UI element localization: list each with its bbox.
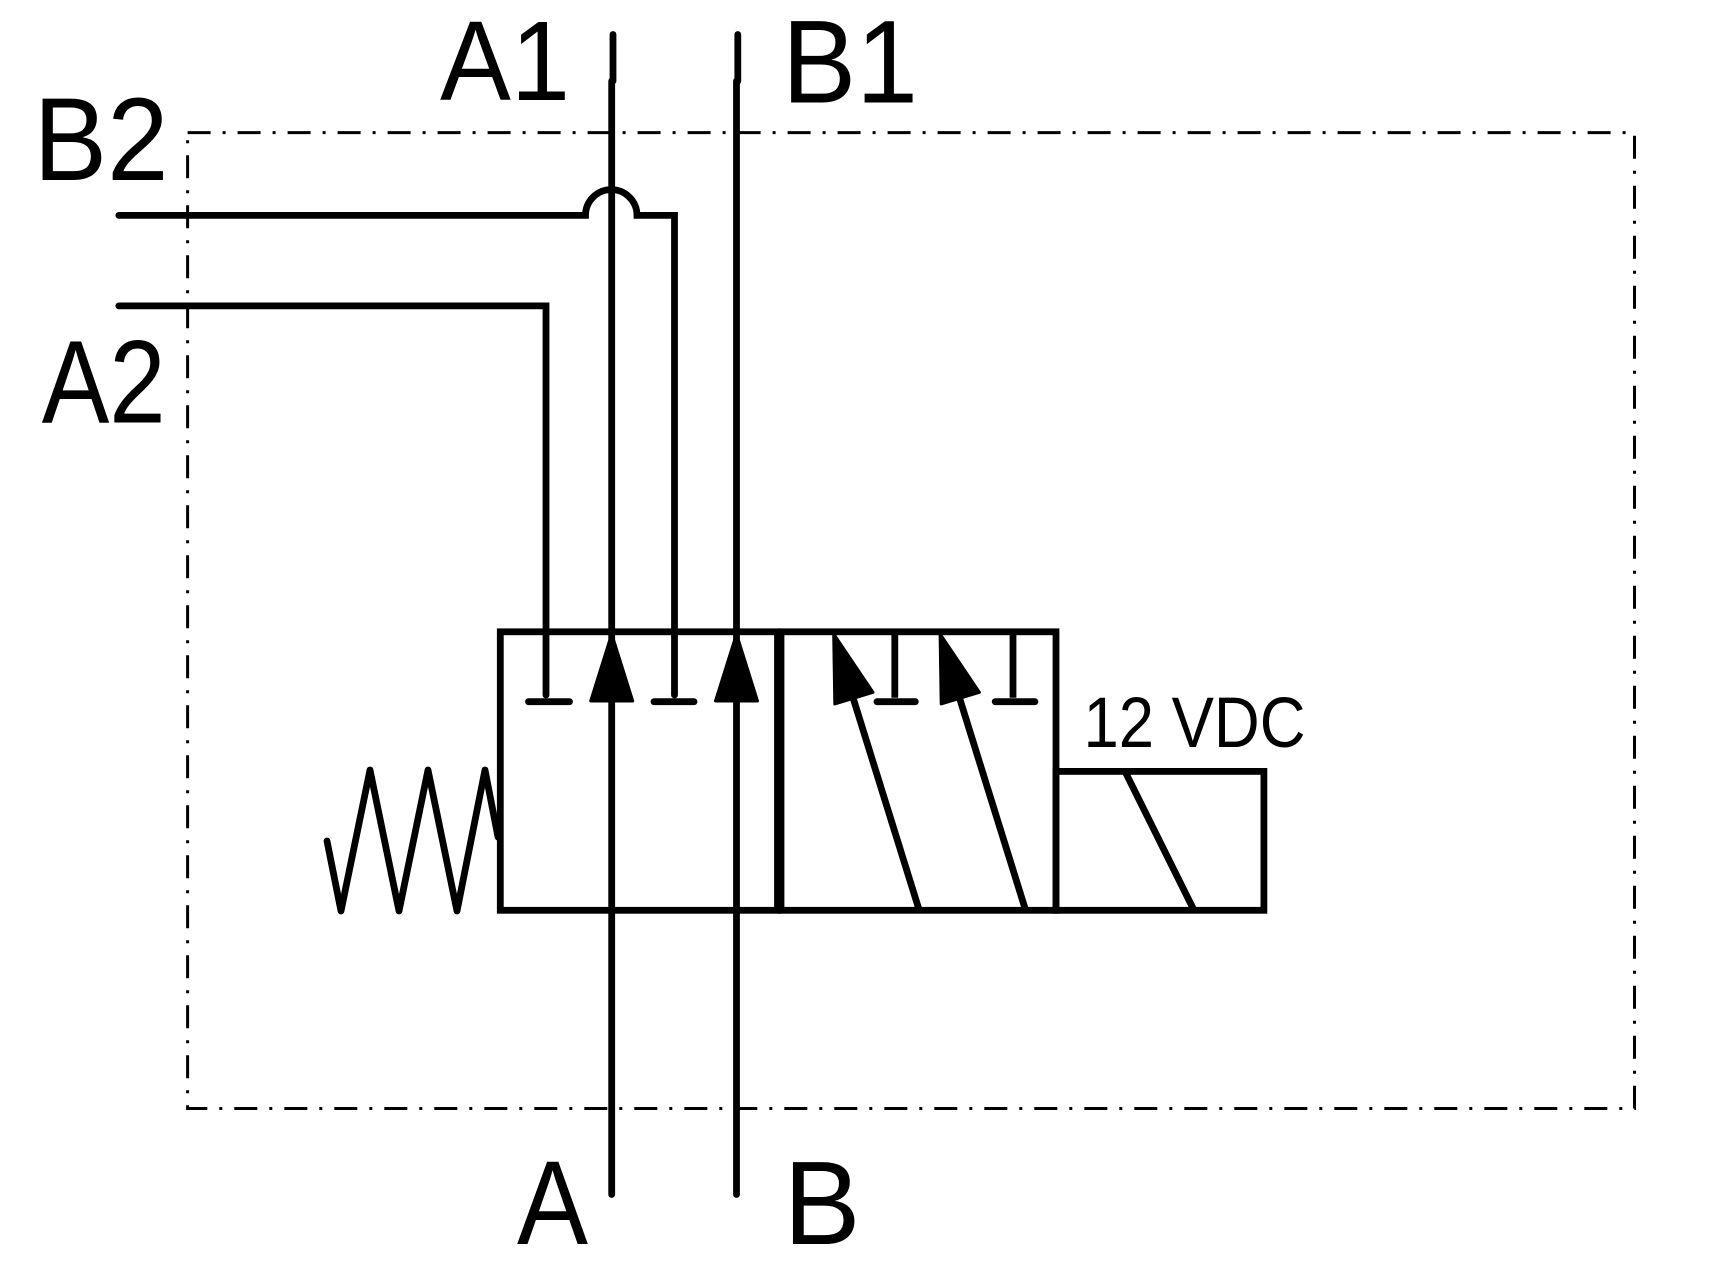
enclosure boundary (dash-dot subplate rectangle): [188, 133, 1635, 1109]
wire B2 trace with hop over wire A: [119, 190, 675, 695]
wire A2 trace: [119, 306, 546, 695]
return spring (left of valve): [327, 770, 498, 911]
svg-text:A2: A2: [42, 317, 166, 449]
wire B (vertical port B to B1): [734, 35, 741, 82]
crossed flow path arrow 1 (right box diagonal): [850, 688, 920, 912]
svg-text:B2: B2: [34, 74, 169, 206]
solenoid diagonal stroke: [1125, 771, 1194, 910]
valve position 1 box (left square): [500, 632, 777, 911]
flow arrowhead A (left box, straight up): [591, 634, 633, 701]
svg-text:B1: B1: [782, 0, 918, 129]
wire A (vertical port A to A1): [610, 35, 617, 82]
crossed flow path arrow 2 (right box diagonal): [956, 688, 1026, 912]
blocked port A2 crossbar (left box): [529, 698, 570, 705]
svg-text:B: B: [784, 1137, 861, 1270]
flow arrowhead B (left box, straight up): [716, 634, 758, 701]
svg-text:A: A: [517, 1136, 588, 1270]
valve position 2 box (right square): [781, 632, 1056, 911]
svg-text:A1: A1: [440, 0, 570, 124]
blocked port B2 crossbar (left box): [654, 698, 694, 705]
svg-text:12 VDC: 12 VDC: [1084, 684, 1306, 763]
blocked stub 2 (right box): [1010, 635, 1017, 698]
solenoid coil box: [1056, 771, 1264, 910]
blocked stub 1 (right box): [891, 635, 898, 698]
